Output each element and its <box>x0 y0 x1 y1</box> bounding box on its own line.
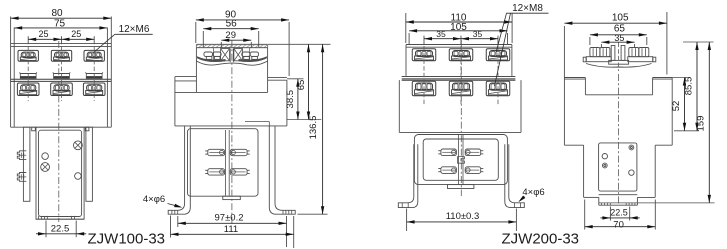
svg-text:136.5: 136.5 <box>308 116 319 140</box>
svg-text:70: 70 <box>613 220 624 231</box>
svg-text:4×φ6: 4×φ6 <box>522 187 544 198</box>
svg-text:35: 35 <box>473 29 483 39</box>
svg-text:4×φ6: 4×φ6 <box>143 194 165 205</box>
svg-text:25: 25 <box>38 29 48 39</box>
svg-text:159: 159 <box>696 116 707 132</box>
svg-text:75: 75 <box>54 18 66 29</box>
svg-text:97±0.2: 97±0.2 <box>215 213 244 224</box>
svg-text:111: 111 <box>224 224 238 235</box>
svg-text:105: 105 <box>450 22 467 33</box>
svg-text:56: 56 <box>226 18 238 29</box>
svg-text:ZJW200-33: ZJW200-33 <box>502 231 580 248</box>
svg-text:65: 65 <box>296 80 307 91</box>
svg-text:12×M8: 12×M8 <box>512 3 543 14</box>
svg-text:38.5: 38.5 <box>285 90 296 109</box>
svg-text:52: 52 <box>671 101 682 112</box>
svg-text:35: 35 <box>436 29 446 39</box>
svg-text:110±0.3: 110±0.3 <box>446 211 480 222</box>
svg-text:29: 29 <box>225 30 236 41</box>
svg-text:12×M6: 12×M6 <box>119 24 150 35</box>
svg-text:22.5: 22.5 <box>51 224 70 235</box>
svg-text:105: 105 <box>612 13 629 24</box>
svg-text:22.5: 22.5 <box>610 207 628 217</box>
svg-text:35: 35 <box>614 33 624 43</box>
svg-text:85.5: 85.5 <box>683 77 694 96</box>
svg-text:25: 25 <box>71 29 81 39</box>
svg-text:ZJW100-33: ZJW100-33 <box>88 231 166 248</box>
